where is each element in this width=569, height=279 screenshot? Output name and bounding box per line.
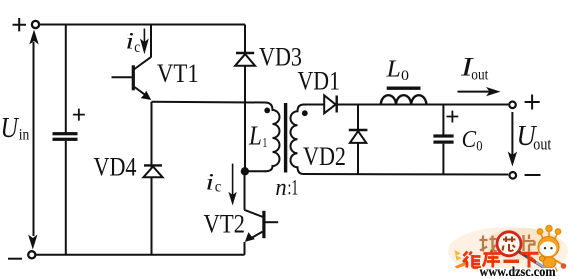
svg-text:0: 0 [401,68,409,84]
svg-text:VD2: VD2 [303,142,346,171]
capacitor C0 branch lower [442,144,444,175]
node +in terminal [32,21,39,28]
svg-text:U: U [1,112,20,144]
top bus wire [40,24,246,26]
U_out voltage arrow [511,112,513,156]
secondary phase dot [302,110,308,116]
svg-text:VD1: VD1 [298,67,341,96]
svg-text:L: L [248,121,262,151]
watermark glow background [448,227,568,275]
wire node B to primary [245,170,266,172]
node B junction dot [241,167,249,175]
wire node B vertical [244,25,246,172]
watermark mascot pen [519,252,544,268]
transformer secondary winding [291,105,305,175]
transformer core bar [284,103,287,173]
svg-text:in: in [19,127,30,144]
plus sign at output [525,95,540,110]
inductor L0 winding [381,95,427,105]
svg-text:L: L [386,57,401,83]
watermark char pian [524,235,535,252]
minus sign at output [525,174,541,176]
watermark swoosh [455,262,468,269]
capacitor Cin plates [53,132,78,135]
watermark mascot face [540,242,557,257]
i_c arrow VT1 [140,29,149,55]
minus sign at input [8,258,22,260]
wire VT2 collector [244,171,246,210]
diode VD3 [235,53,255,66]
wire VD2 branch lower [357,143,359,174]
transformer primary winding L1 [265,103,280,172]
watermark magnifier circle [497,232,521,256]
plus sign at capacitor [73,109,85,121]
wire VD4 branch [151,102,153,255]
wire capacitor branch lower [65,141,67,255]
watermark char zhao [480,236,498,252]
watermark mascot head [538,237,559,258]
watermark mascot body [543,257,556,268]
i_c arrow VT2 [228,164,236,206]
primary phase dot [264,108,270,114]
watermark sparkle [455,250,463,261]
svg-text:out: out [471,66,488,83]
wire secondary top lead [303,104,324,106]
svg-text:C: C [462,127,477,153]
plus sign at C0 [447,111,459,123]
node +out terminal [509,102,516,109]
svg-text:c: c [215,179,222,196]
I_out arrow [458,91,493,93]
capacitor C0 plates [433,134,453,137]
svg-text:VT2: VT2 [204,210,246,239]
diode VD1 [324,95,337,113]
watermark char xin [503,237,516,251]
wire bottom rail [303,173,508,176]
svg-text::1: :1 [288,175,299,200]
diode VD2 [349,130,368,143]
svg-text:i: i [126,29,135,54]
node -in terminal [28,251,35,258]
U_in voltage arrow [33,42,35,236]
watermark dzsc logo [448,226,568,279]
svg-text:1: 1 [262,135,267,150]
svg-text:out: out [533,135,551,154]
wire VT1 collector [150,25,152,58]
svg-text:VD3: VD3 [259,43,302,72]
watermark mascot crown [537,226,560,240]
wire capacitor branch upper [65,25,67,134]
svg-text:c: c [134,39,140,56]
svg-text:VD4: VD4 [94,153,137,182]
svg-text:n: n [275,175,286,201]
inductor L0 core bar [387,86,421,89]
svg-text:www.dzsc.com: www.dzsc.com [480,264,557,279]
wire top rail [337,104,508,106]
bottom bus wire [36,254,244,256]
svg-text:0: 0 [476,139,482,155]
svg-text:i: i [206,169,215,194]
capacitor C0 branch upper [442,105,444,136]
transistor VT1 [112,57,152,100]
transistor VT2 [244,210,278,242]
wire VT2 emitter [244,242,246,255]
wire node A horizontal [152,101,266,104]
wire VD2 branch upper [357,105,359,132]
plus sign at input [13,18,27,31]
node -out terminal [510,172,517,179]
diode VD4 [143,165,162,177]
svg-text:VT1: VT1 [157,59,199,88]
watermark text weikuyixia [463,251,539,268]
